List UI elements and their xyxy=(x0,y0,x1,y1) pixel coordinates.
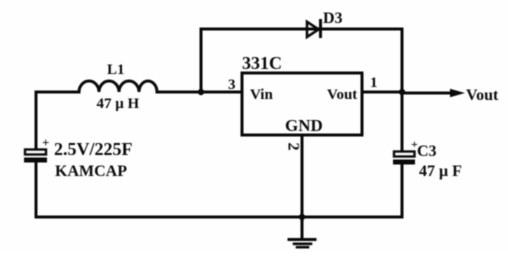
svg-text:1: 1 xyxy=(370,75,378,91)
svg-text:+: + xyxy=(42,135,49,150)
svg-text:GND: GND xyxy=(285,116,323,135)
svg-text:Vin: Vin xyxy=(250,87,273,103)
inductor L1 xyxy=(79,81,157,92)
wire: pin 2 ground wire xyxy=(301,135,304,217)
svg-text:47 μ F: 47 μ F xyxy=(419,163,462,180)
svg-text:47 μ H: 47 μ H xyxy=(97,96,140,112)
wire: left rail upper segment xyxy=(35,92,38,149)
svg-text:331C: 331C xyxy=(242,53,282,73)
svg-text:C3: C3 xyxy=(417,143,437,160)
svg-text:Vout: Vout xyxy=(466,87,499,104)
svg-text:3: 3 xyxy=(228,77,236,93)
node: output junction xyxy=(399,89,405,95)
wire: riser to diode branch xyxy=(200,29,203,92)
wire: left rail lower segment xyxy=(35,162,38,217)
wire: inductor to Vin pin 3 xyxy=(157,91,242,94)
IC U1 331C xyxy=(242,73,362,135)
node: ground junction xyxy=(299,214,305,220)
wire: output arrow shaft xyxy=(402,92,452,95)
wire: right rail lower segment xyxy=(401,164,404,217)
wire: input horizontal to inductor xyxy=(36,91,79,94)
svg-text:L1: L1 xyxy=(107,62,125,78)
diode D3 xyxy=(307,19,321,38)
wire: right rail upper segment xyxy=(401,29,404,151)
svg-text:2.5V/225F: 2.5V/225F xyxy=(54,139,133,159)
capacitor C1 KAMCAP xyxy=(24,135,49,163)
capacitor C3 xyxy=(393,137,418,165)
node: junction at inductor / diode branch xyxy=(198,89,204,95)
wire: pin 1 output wire xyxy=(362,91,402,94)
wire: bottom rail xyxy=(36,216,402,219)
ground xyxy=(289,217,315,247)
output arrowhead xyxy=(450,89,465,97)
svg-text:D3: D3 xyxy=(323,10,343,27)
svg-text:KAMCAP: KAMCAP xyxy=(55,163,127,180)
svg-text:Vout: Vout xyxy=(327,87,357,103)
wire: top rail through diode xyxy=(201,28,402,31)
svg-text:2: 2 xyxy=(285,143,302,151)
